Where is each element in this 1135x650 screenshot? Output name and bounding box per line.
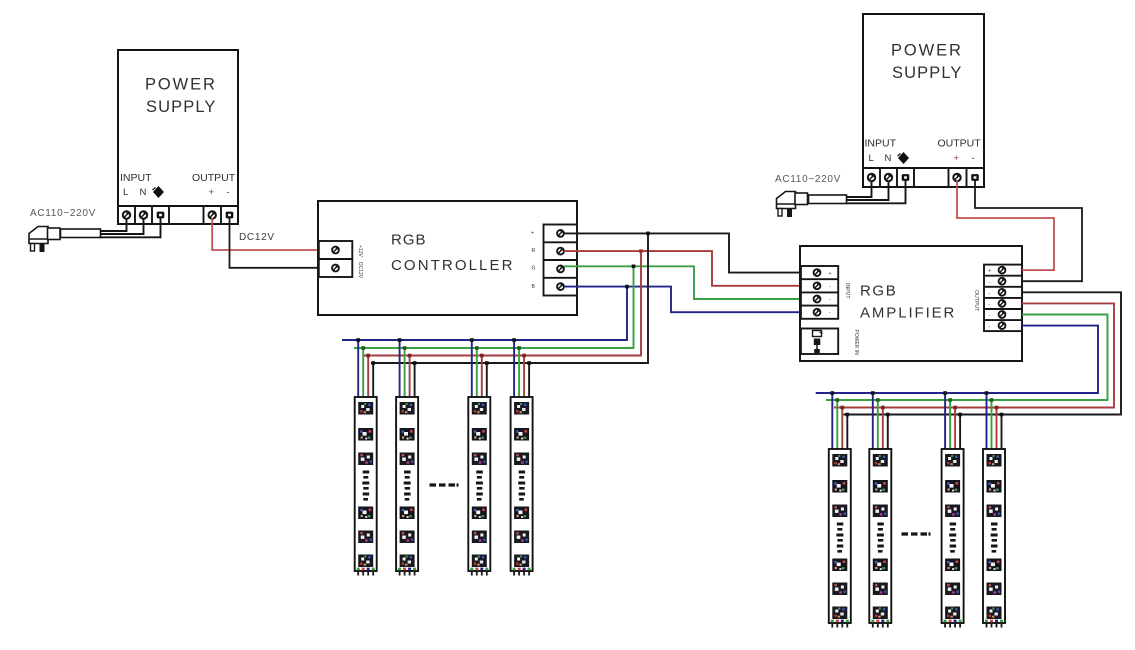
amplifier output screw 6 [999,322,1006,329]
junction blue [625,285,629,289]
svg-text:N: N [140,187,147,198]
wire amplifier B out to group2 (blue) [816,326,1098,393]
svg-text:SUPPLY: SUPPLY [146,98,217,116]
svg-text:CONTROLLER: CONTROLLER [391,257,515,274]
junction red [639,249,643,253]
wire PS2 + to amplifier (red) [957,181,1054,271]
amplifier input screw 1 [814,269,821,276]
PS2 label POWER SUPPLY [891,42,963,83]
PS1 label POWER SUPPLY [145,76,217,117]
LED strip 4 bottom stubs [514,571,529,576]
amplifier input screw 2 [814,282,821,289]
controller output pin marks [531,231,536,291]
LED strip 7 bottom stubs [945,623,960,628]
svg-text:R: R [532,248,536,254]
svg-text:+: + [988,269,991,275]
continuation dashes group2 [902,532,931,535]
LED strip 6 bottom stubs [873,623,888,628]
LED strip 5 bottom stubs [832,623,847,628]
PS1 screw ground [157,212,165,219]
svg-text:AMPLIFIER: AMPLIFIER [860,305,956,322]
PS2 terminal strip [863,168,984,187]
svg-text:+12V: +12V [357,245,363,257]
AC cord 1 [61,229,101,238]
wire PS1 + to controller (red) [212,218,319,250]
amplifier output screw 3 [999,289,1006,296]
amplifier output screw 4 [999,300,1006,307]
svg-text:AC110~220V: AC110~220V [775,174,841,185]
wire plug1 to L [101,218,127,231]
controller input screw - [332,265,339,272]
svg-text:DC12V: DC12V [239,232,275,243]
group1 strip1 drops [358,340,373,402]
LED strip 1 (group1) [355,397,377,571]
junction black [646,232,650,236]
PS2 ground symbol [898,152,909,164]
amplifier input screw 3 [814,296,821,303]
wire amplifier V+ out to group2 (black) [844,292,1122,414]
branch black bus group1 [371,233,648,363]
LED strip 1 bottom stubs [358,571,373,576]
wire controller G to amplifier (green) [564,266,801,299]
amplifier input pin marks [829,271,832,316]
group2 strip1 drops [832,393,847,453]
svg-text:AC110~220V: AC110~220V [30,208,96,219]
svg-text:POWER: POWER [891,42,963,60]
wire controller V+ to amplifier (black) [564,233,801,272]
svg-text:RGB: RGB [860,283,897,300]
wire controller R to amplifier (red) [564,251,801,286]
svg-text:-: - [972,153,975,164]
LED strip 2 bottom stubs [400,571,415,576]
group2 strip3 drops [945,393,960,453]
junction green [632,265,636,269]
wire PS2 - to amplifier (black) [975,181,1082,282]
LED strip 6 (group2) [869,449,891,623]
svg-text:DC12V: DC12V [357,262,363,279]
amplifier output screw 1 [999,267,1006,274]
PS2 screw - [971,174,979,181]
power supply PS1 box [118,50,238,206]
svg-text:+: + [531,231,534,237]
PS1 screw L [123,211,130,218]
PS1 screw + [209,211,216,218]
group1 strip1 drop junctions [356,338,375,365]
wire plug2 to N [847,181,889,201]
LED strip 3 bottom stubs [472,571,487,576]
group2 strip4 drop junctions [985,391,1004,416]
controller output screw G [557,266,564,273]
PS1 terminal strip [118,206,238,224]
wire PS1 - to controller (black) [230,218,320,268]
wire plug2 to L [847,181,872,198]
PS1 terminal dividers [135,206,221,224]
svg-text:OUTPUT: OUTPUT [192,172,236,184]
group2 strip2 drop junctions [871,391,890,416]
svg-text:INPUT: INPUT [865,138,897,150]
group1 strip4 drop junctions [512,338,531,365]
group1 strip3 drops [472,340,487,402]
amplifier output terminal block [984,265,1022,332]
controller input terminal block [319,241,353,277]
PS1 screw - [226,212,234,219]
RGB amplifier box [800,246,1022,361]
group2 strip1 drop junctions [831,391,850,416]
svg-text:INPUT: INPUT [844,283,850,299]
svg-text:+: + [954,153,960,164]
svg-text:OUTPUT: OUTPUT [973,290,979,312]
PS1 screw N [140,211,147,218]
svg-text:SUPPLY: SUPPLY [892,64,963,82]
controller input screw + [332,247,339,254]
amplifier output screw 5 [999,311,1006,318]
PS2 terminal dividers [880,168,967,187]
LED strip 3 (group1) [468,397,490,571]
PS1 ground symbol [153,186,164,198]
svg-text:+: + [209,187,215,198]
wire amplifier R out to group2 (red) [834,303,1114,407]
controller output screw R [557,248,564,255]
amplifier power block [801,329,838,355]
svg-text:INPUT: INPUT [120,172,152,184]
amplifier output pin marks [988,269,991,330]
svg-text:L: L [869,153,874,164]
PS2 screw ground [902,174,910,181]
amplifier power jack symbol [813,331,822,337]
group1 strip4 drops [514,340,529,402]
wire controller B to amplifier (blue) [564,287,801,313]
AC cord 2 [809,195,847,204]
svg-text:-: - [227,187,230,198]
svg-text:L: L [123,187,128,198]
group1 strip3 drop junctions [470,338,489,365]
LED strip 7 (group2) [942,449,964,623]
PS2 screw + [953,174,960,181]
branch red bus group1 [364,251,641,355]
amplifier input screw 4 [814,309,821,316]
LED strip 8 (group2) [983,449,1005,623]
branch green bus group1 [354,266,634,348]
wire plug2 to ground [847,181,906,204]
group2 strip4 drops [987,393,1002,453]
AC plug 2 [777,192,808,218]
group2 strip3 drop junctions [943,391,962,416]
svg-text:OUTPUT: OUTPUT [938,138,982,150]
LED strip 5 (group2) [829,449,851,623]
svg-text:+: + [829,271,832,277]
group2 strip2 drops [873,393,888,453]
svg-text:G: G [532,266,536,272]
svg-text:N: N [885,153,892,164]
PS2 screw N [885,174,892,181]
LED strip 4 (group1) [511,397,533,571]
amplifier output screw 2 [999,278,1006,285]
svg-text:RGB: RGB [391,232,427,249]
PS2 screw L [868,174,875,181]
wire amplifier G out to group2 (green) [826,315,1108,401]
group1 strip2 drop junctions [398,338,417,365]
power supply PS2 box [863,14,984,168]
svg-text:POWER IN: POWER IN [853,330,859,356]
amplifier input terminal block [801,266,838,319]
RGB controller box [318,201,577,315]
wire plug1 to N [101,218,144,234]
controller output terminal block [544,225,578,296]
LED strip 2 (group1) [396,397,418,571]
group1 strip2 drops [400,340,415,402]
wire plug1 to ground [101,218,161,237]
AC plug 1 [29,227,60,253]
controller output screw V+ [557,230,564,237]
controller output screw B [557,283,564,290]
continuation dashes group1 [430,483,459,486]
svg-text:POWER: POWER [145,76,217,94]
branch blue bus group1 [342,287,627,340]
LED strip 8 bottom stubs [987,623,1002,628]
